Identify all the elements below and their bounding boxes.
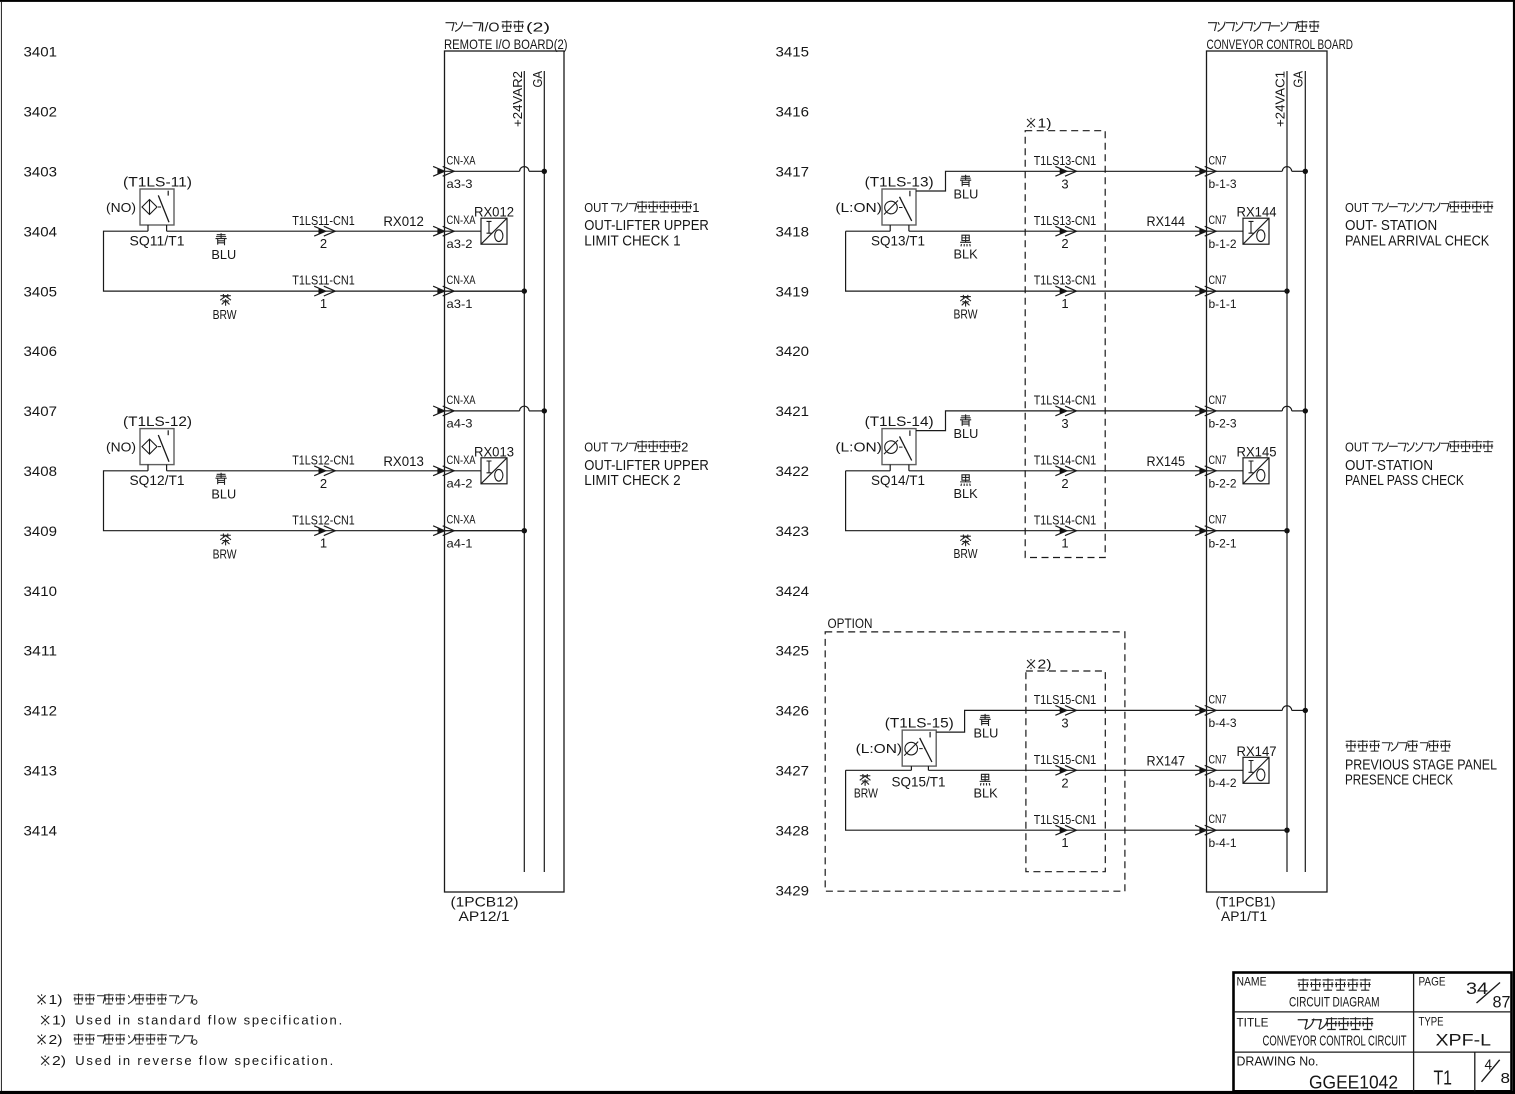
svg-text:OUT-STATION: OUT-STATION — [1345, 458, 1433, 474]
limit switch SQ11/T1 (T1LS-11) NO proximity — [140, 189, 174, 225]
svg-text:3417: 3417 — [776, 164, 810, 180]
svg-text:BLU: BLU — [954, 187, 979, 202]
svg-text:CN7: CN7 — [1209, 752, 1227, 766]
svg-text:T1LS13-CN1: T1LS13-CN1 — [1034, 274, 1097, 288]
conveyor control board title (Japanese) — [1208, 23, 1216, 31]
pin stubs T1LS11 — [147, 225, 149, 231]
svg-text:a4-1: a4-1 — [447, 537, 473, 551]
svg-text:1: 1 — [692, 200, 699, 215]
svg-text:2: 2 — [1061, 775, 1068, 790]
svg-text:3405: 3405 — [24, 283, 58, 299]
svg-text:+24VAR2: +24VAR2 — [510, 71, 525, 127]
svg-text:3423: 3423 — [776, 523, 810, 539]
svg-text:TITLE: TITLE — [1237, 1016, 1269, 1030]
svg-text:(L:ON): (L:ON) — [835, 440, 882, 455]
input point RX147 (I/O) — [1243, 757, 1269, 783]
connector CN7 pin b-4-3 — [1199, 708, 1206, 714]
svg-text:REMOTE I/O BOARD(2): REMOTE I/O BOARD(2) — [444, 36, 568, 52]
svg-text:PRESENCE CHECK: PRESENCE CHECK — [1345, 773, 1453, 789]
svg-text:T1LS11-CN1: T1LS11-CN1 — [292, 214, 355, 228]
connector CN-XA pin a4-3 — [437, 408, 444, 414]
svg-text:T1LS11-CN1: T1LS11-CN1 — [292, 274, 355, 288]
connector CN-XA pin a3-1 — [437, 288, 444, 294]
connector CN7 pin b-1-3 — [1199, 168, 1206, 174]
wire color label black — [960, 475, 971, 486]
board AP12/1 outline — [445, 51, 565, 892]
svg-text:3425: 3425 — [776, 643, 810, 659]
svg-text:CN7: CN7 — [1209, 692, 1227, 706]
OPTION dashed box — [825, 632, 1125, 891]
svg-text:3: 3 — [1061, 715, 1068, 730]
svg-text:CN7: CN7 — [1209, 273, 1227, 287]
svg-text:NAME: NAME — [1237, 975, 1267, 989]
svg-text:RX147: RX147 — [1237, 744, 1277, 759]
board AP1/T1 outline — [1207, 51, 1328, 892]
junction b-4-3/GA — [1303, 708, 1308, 713]
wire b-2-3 to GA rail — [1207, 410, 1283, 412]
svg-text:BRW: BRW — [854, 786, 879, 801]
svg-text:3403: 3403 — [24, 164, 58, 180]
svg-text:RX012: RX012 — [383, 214, 423, 229]
svg-text:a4-2: a4-2 — [447, 477, 473, 491]
svg-text:GA: GA — [530, 71, 545, 88]
svg-text:T1LS14-CN1: T1LS14-CN1 — [1034, 453, 1097, 467]
svg-text:2: 2 — [320, 476, 327, 491]
connector CN-XA pin a4-2 — [437, 468, 444, 474]
svg-text:CONVEYOR CONTROL BOARD: CONVEYOR CONTROL BOARD — [1207, 36, 1354, 52]
connector CN-XA pin a3-2 — [437, 228, 444, 234]
svg-text:BRW: BRW — [954, 546, 979, 561]
wire b-2-1 to +24VAC1 rail — [1207, 530, 1288, 532]
svg-text:3411: 3411 — [24, 643, 58, 659]
svg-text:I/O: I/O — [481, 20, 500, 35]
wire color label blue — [979, 714, 990, 726]
svg-text:RX013: RX013 — [474, 444, 514, 459]
cable connector T1LS14-CN1 pin 1 — [1060, 528, 1067, 534]
svg-text:GGEE1042: GGEE1042 — [1309, 1073, 1398, 1093]
svg-text:b-4-1: b-4-1 — [1209, 836, 1237, 850]
svg-text:1: 1 — [320, 296, 327, 311]
svg-text:OUT: OUT — [584, 440, 608, 455]
contact blade SQ14/T1 — [900, 436, 912, 460]
wire color label black — [960, 235, 971, 246]
note *2 Japanese — [38, 1034, 46, 1044]
svg-text:SQ14/T1: SQ14/T1 — [871, 472, 925, 488]
svg-text:3412: 3412 — [24, 703, 58, 719]
svg-text:CN7: CN7 — [1209, 453, 1227, 467]
svg-text:3404: 3404 — [24, 223, 58, 239]
svg-text:RX145: RX145 — [1147, 454, 1186, 469]
wire T1LS15-CN1 pin 1 (BRW loop) — [846, 770, 1287, 830]
junction a4-1/+24VAR2 — [522, 528, 527, 533]
connector CN7 pin b-1-1 — [1199, 288, 1206, 294]
svg-text:3: 3 — [1061, 176, 1068, 191]
svg-text:3407: 3407 — [24, 403, 58, 419]
svg-text:OUT: OUT — [1345, 200, 1369, 215]
junction b-1-3/GA — [1303, 169, 1308, 174]
label *2) — [1027, 659, 1035, 669]
svg-text:1): 1) — [49, 992, 63, 1007]
connector CN7 pin b-4-1 — [1199, 827, 1206, 833]
pin stubs T1LS13 — [889, 225, 891, 231]
svg-text:BLU: BLU — [211, 487, 236, 502]
junction a3-1/+24VAR2 — [522, 288, 527, 293]
svg-text:CONVEYOR CONTROL CIRCUIT: CONVEYOR CONTROL CIRCUIT — [1263, 1034, 1407, 1050]
svg-text:(NO): (NO) — [106, 200, 136, 215]
connector CN7 pin b-1-2 — [1199, 228, 1206, 234]
svg-text:b-4-2: b-4-2 — [1209, 776, 1237, 790]
limit switch SQ15/T1 (T1LS-15) L:ON type — [902, 730, 936, 766]
cable connector T1LS15-CN1 pin 3 — [1060, 708, 1067, 714]
label *1) — [1027, 118, 1035, 128]
remote I/O board title (Japanese) — [446, 23, 454, 31]
junction b-4-1/+24VAC1 — [1284, 828, 1289, 833]
svg-text:PANEL PASS CHECK: PANEL PASS CHECK — [1345, 473, 1464, 489]
svg-text:BRW: BRW — [954, 306, 979, 321]
svg-text:b-1-3: b-1-3 — [1209, 177, 1237, 191]
svg-text:3406: 3406 — [24, 343, 58, 359]
svg-text:3420: 3420 — [776, 343, 810, 359]
cable connector T1LS15-CN1 pin 2 — [1060, 767, 1067, 773]
contact blade SQ12/T1 — [158, 435, 169, 462]
cable connector T1LS12-CN1 pin 1 — [319, 528, 326, 534]
svg-text:(T1LS-11): (T1LS-11) — [123, 174, 192, 190]
wire color label brown — [960, 534, 971, 546]
svg-text:2): 2) — [52, 1053, 66, 1068]
svg-text:1): 1) — [1038, 115, 1052, 130]
svg-text:CN7: CN7 — [1209, 153, 1227, 167]
svg-text:BLK: BLK — [954, 247, 979, 262]
svg-text:a3-1: a3-1 — [447, 297, 473, 311]
connector CN-XA pin a4-1 — [437, 528, 444, 534]
svg-text:3427: 3427 — [776, 763, 810, 779]
annotation PREVIOUS STAGE PANEL PRESENCE CHECK (Japanese) — [1346, 740, 1356, 751]
svg-text:3416: 3416 — [776, 104, 810, 120]
svg-text:1): 1) — [52, 1013, 66, 1028]
svg-text:2): 2) — [49, 1032, 63, 1047]
svg-text:87: 87 — [1493, 993, 1511, 1011]
svg-text:3: 3 — [1061, 416, 1068, 431]
limit switch SQ13/T1 (T1LS-13) L:ON type — [882, 189, 916, 225]
svg-text:GA: GA — [1291, 71, 1306, 88]
svg-text:RX012: RX012 — [474, 205, 514, 220]
input point RX145 (I/O) — [1243, 458, 1269, 484]
svg-text:BRW: BRW — [213, 547, 238, 562]
connector CN7 pin b-2-2 — [1199, 468, 1206, 474]
svg-text:TYPE: TYPE — [1419, 1015, 1444, 1029]
contact blade SQ15/T1 — [920, 738, 932, 762]
svg-text:3426: 3426 — [776, 703, 810, 719]
svg-text:a3-3: a3-3 — [447, 177, 473, 191]
wire color label brown (left of switch) — [860, 774, 871, 786]
svg-text:CN-XA: CN-XA — [447, 453, 476, 467]
wire T1LS11-CN1 pin 1 (BRW loop) — [104, 231, 525, 291]
svg-text:2: 2 — [1061, 236, 1068, 251]
svg-text:3421: 3421 — [776, 403, 810, 419]
svg-text:OUT: OUT — [1345, 440, 1369, 455]
wire T1LS15-CN1 pin 3 (BLU) — [936, 710, 1206, 732]
connector CN7 pin b-2-3 — [1199, 408, 1206, 414]
svg-text:CN-XA: CN-XA — [447, 273, 476, 287]
svg-text:1: 1 — [320, 536, 327, 551]
wire T1LS15-CN1 pin 2 (BLK) — [846, 769, 912, 771]
svg-text:T1: T1 — [1434, 1068, 1453, 1090]
svg-text:SQ12/T1: SQ12/T1 — [130, 472, 185, 488]
svg-text:2: 2 — [681, 440, 688, 455]
svg-text:b-2-1: b-2-1 — [1209, 537, 1237, 551]
svg-text:BLU: BLU — [974, 726, 999, 741]
svg-text:RX147: RX147 — [1147, 753, 1186, 768]
svg-text:a3-2: a3-2 — [447, 237, 473, 251]
connector CN7 pin b-2-1 — [1199, 528, 1206, 534]
svg-text:Used in standard flow specific: Used in standard flow specification. — [75, 1013, 342, 1028]
svg-text:3428: 3428 — [776, 822, 810, 838]
svg-text:CN-XA: CN-XA — [447, 393, 476, 407]
svg-text:T1LS13-CN1: T1LS13-CN1 — [1034, 154, 1097, 168]
limit switch SQ14/T1 (T1LS-14) L:ON type — [882, 429, 916, 465]
cable connector T1LS11-CN1 pin 2 — [319, 228, 326, 234]
+24VAR2 power rail — [523, 71, 525, 872]
svg-text:3429: 3429 — [776, 882, 810, 898]
wire T1LS12-CN1 pin 1 (BRW loop) — [104, 471, 525, 531]
wire a4-1 to +24VAR2 rail — [445, 530, 525, 532]
input point RX012 (I/O) — [481, 218, 507, 244]
svg-text:3409: 3409 — [24, 523, 58, 539]
wire b-1-1 to +24VAC1 rail — [1207, 290, 1288, 292]
svg-text:CIRCUIT DIAGRAM: CIRCUIT DIAGRAM — [1289, 993, 1380, 1009]
GA rail — [543, 71, 545, 872]
wire T1LS14-CN1 pin 2 (BLK) — [846, 470, 891, 472]
svg-text:(L:ON): (L:ON) — [856, 741, 903, 756]
svg-text:3415: 3415 — [776, 44, 810, 60]
svg-text:DRAWING No.: DRAWING No. — [1237, 1054, 1319, 1069]
svg-text:(NO): (NO) — [106, 440, 136, 455]
svg-text:T1LS12-CN1: T1LS12-CN1 — [292, 453, 355, 467]
svg-text:8: 8 — [1501, 1071, 1511, 1087]
svg-text:3413: 3413 — [24, 763, 58, 779]
svg-text:3410: 3410 — [24, 583, 58, 599]
svg-text:T1LS13-CN1: T1LS13-CN1 — [1034, 214, 1097, 228]
svg-text:CN7: CN7 — [1209, 812, 1227, 826]
svg-text:3401: 3401 — [24, 44, 58, 60]
svg-text:b-4-3: b-4-3 — [1209, 716, 1237, 730]
wire b-4-1 to +24VAC1 rail — [1207, 829, 1288, 831]
junction a4-3/GA — [542, 408, 547, 413]
input point RX013 (I/O) — [481, 458, 507, 484]
svg-text:b-1-2: b-1-2 — [1209, 237, 1237, 251]
svg-text:1: 1 — [1061, 296, 1068, 311]
cable connector T1LS15-CN1 pin 1 — [1060, 827, 1067, 833]
cable connector T1LS12-CN1 pin 2 — [319, 468, 326, 474]
svg-text:BLK: BLK — [974, 786, 999, 801]
wire color label brown — [220, 294, 231, 306]
connector CN7 pin b-4-2 — [1199, 767, 1206, 773]
cable connector T1LS14-CN1 pin 2 — [1060, 468, 1067, 474]
svg-text:CN-XA: CN-XA — [447, 213, 476, 227]
svg-text:(T1LS-12): (T1LS-12) — [123, 413, 192, 429]
svg-text:T1LS15-CN1: T1LS15-CN1 — [1034, 813, 1097, 827]
wire color label blue — [960, 175, 971, 187]
svg-text:RX013: RX013 — [383, 454, 423, 469]
wire color label brown — [220, 534, 231, 546]
svg-text:(T1LS-14): (T1LS-14) — [865, 413, 934, 429]
note *1 Japanese — [38, 994, 46, 1004]
svg-text:1: 1 — [1061, 835, 1068, 850]
svg-text:OUT-LIFTER UPPER: OUT-LIFTER UPPER — [584, 218, 709, 234]
svg-text:2: 2 — [1061, 476, 1068, 491]
svg-text:3418: 3418 — [776, 223, 810, 239]
svg-text:T1LS15-CN1: T1LS15-CN1 — [1034, 753, 1097, 767]
svg-text:AP12/1: AP12/1 — [459, 908, 510, 924]
wire T1LS14-CN1 pin 3 (BLU) — [916, 411, 1207, 431]
svg-text:b-2-3: b-2-3 — [1209, 417, 1237, 431]
svg-text:RX144: RX144 — [1147, 214, 1186, 229]
limit switch SQ12/T1 (T1LS-12) NO proximity — [140, 429, 174, 465]
wire color label blue — [215, 473, 226, 485]
svg-text:3408: 3408 — [24, 463, 58, 479]
svg-text:3414: 3414 — [24, 822, 58, 838]
wire color label brown — [960, 295, 971, 307]
title block frame — [1234, 973, 1512, 1092]
svg-text:BRW: BRW — [213, 307, 238, 322]
svg-text:1: 1 — [1061, 536, 1068, 551]
wire T1LS13-CN1 pin 3 (BLU) — [916, 171, 1207, 191]
svg-text:OUT- STATION: OUT- STATION — [1345, 218, 1437, 234]
note *2 English — [41, 1055, 49, 1065]
svg-text:T1LS12-CN1: T1LS12-CN1 — [292, 513, 355, 527]
pin stubs T1LS15 — [910, 766, 912, 770]
wire b-1-3 to GA rail — [1207, 170, 1283, 172]
cable connector T1LS11-CN1 pin 1 — [319, 288, 326, 294]
svg-text:Used in reverse flow specifica: Used in reverse flow specification. — [75, 1053, 333, 1068]
junction b-2-1/+24VAC1 — [1284, 528, 1289, 533]
note box *2 (reverse flow) — [1026, 671, 1105, 872]
svg-text:CN7: CN7 — [1209, 213, 1227, 227]
svg-text:T1LS14-CN1: T1LS14-CN1 — [1034, 394, 1097, 408]
svg-text:2): 2) — [1038, 656, 1052, 671]
svg-text:(L:ON): (L:ON) — [835, 200, 882, 215]
pin stubs T1LS14 — [889, 465, 891, 471]
svg-text:(2): (2) — [526, 20, 550, 35]
svg-text:OPTION: OPTION — [828, 616, 873, 631]
svg-text:b-1-1: b-1-1 — [1209, 297, 1237, 311]
contact blade SQ11/T1 — [158, 195, 169, 222]
wire color label blue — [215, 233, 226, 245]
cable connector T1LS13-CN1 pin 2 — [1060, 228, 1067, 234]
svg-text:CN-XA: CN-XA — [447, 153, 476, 167]
connector CN-XA pin a3-3 — [437, 168, 444, 174]
wire color label blue — [960, 414, 971, 426]
junction b-2-3/GA — [1303, 408, 1308, 413]
svg-text:3402: 3402 — [24, 104, 58, 120]
svg-text:CN7: CN7 — [1209, 393, 1227, 407]
wire a4-3 to GA rail — [445, 410, 520, 412]
svg-text:CN-XA: CN-XA — [447, 513, 476, 527]
svg-text:a4-3: a4-3 — [447, 417, 473, 431]
input point RX144 (I/O) — [1243, 218, 1269, 244]
wire a3-1 to +24VAR2 rail — [445, 290, 525, 292]
pin stubs T1LS12 — [147, 465, 149, 471]
note *1 English — [41, 1015, 49, 1025]
wire T1LS12-CN1 pin 2 (BLU) — [167, 470, 481, 472]
svg-text:3422: 3422 — [776, 463, 810, 479]
cable connector T1LS13-CN1 pin 1 — [1060, 288, 1067, 294]
wire T1LS13-CN1 pin 2 (BLK) — [846, 230, 891, 232]
svg-text:(T1LS-13): (T1LS-13) — [865, 174, 934, 190]
cable connector T1LS13-CN1 pin 3 — [1060, 168, 1067, 174]
wire color label black — [980, 774, 991, 785]
wire b-4-3 to GA rail — [1207, 709, 1283, 711]
contact blade SQ13/T1 — [900, 197, 912, 221]
svg-text:LIMIT CHECK 2: LIMIT CHECK 2 — [584, 473, 680, 489]
svg-text:CN7: CN7 — [1209, 513, 1227, 527]
svg-text:T1LS15-CN1: T1LS15-CN1 — [1034, 693, 1097, 707]
junction b-1-1/+24VAC1 — [1284, 288, 1289, 293]
svg-text:3424: 3424 — [776, 583, 810, 599]
svg-text:XPF-L: XPF-L — [1436, 1032, 1492, 1050]
svg-text:BLU: BLU — [954, 426, 979, 441]
note box *1 (standard flow) — [1025, 131, 1105, 558]
svg-text:2: 2 — [320, 236, 327, 251]
wire a3-3 to GA rail — [445, 170, 520, 172]
svg-text:+24VAC1: +24VAC1 — [1272, 71, 1287, 127]
svg-text:T1LS14-CN1: T1LS14-CN1 — [1034, 513, 1097, 527]
svg-text:BLK: BLK — [954, 486, 979, 501]
svg-text:AP1/T1: AP1/T1 — [1221, 908, 1267, 924]
+24VAC1 power rail — [1286, 71, 1288, 872]
junction a3-3/GA — [542, 169, 547, 174]
GA rail (right board) — [1304, 71, 1306, 872]
wire T1LS13-CN1 pin 1 (BRW loop) — [846, 231, 1287, 291]
svg-text:RX145: RX145 — [1237, 444, 1277, 459]
svg-text:(T1LS-15): (T1LS-15) — [885, 715, 954, 731]
svg-text:SQ11/T1: SQ11/T1 — [130, 233, 185, 249]
svg-text:PREVIOUS STAGE PANEL: PREVIOUS STAGE PANEL — [1345, 757, 1497, 773]
wire T1LS14-CN1 pin 1 (BRW loop) — [846, 471, 1287, 531]
svg-text:3419: 3419 — [776, 283, 810, 299]
cable connector T1LS14-CN1 pin 3 — [1060, 408, 1067, 414]
svg-text:b-2-2: b-2-2 — [1209, 477, 1237, 491]
svg-text:PANEL ARRIVAL CHECK: PANEL ARRIVAL CHECK — [1345, 234, 1490, 250]
svg-text:RX144: RX144 — [1237, 205, 1277, 220]
svg-text:BLU: BLU — [211, 247, 236, 262]
svg-text:LIMIT CHECK 1: LIMIT CHECK 1 — [584, 234, 680, 250]
wire T1LS11-CN1 pin 2 (BLU) — [167, 230, 481, 232]
svg-text:SQ13/T1: SQ13/T1 — [871, 232, 925, 248]
svg-text:PAGE: PAGE — [1419, 975, 1446, 989]
svg-text:OUT: OUT — [584, 200, 608, 215]
svg-text:OUT-LIFTER UPPER: OUT-LIFTER UPPER — [584, 458, 709, 474]
svg-text:SQ15/T1: SQ15/T1 — [892, 773, 946, 789]
